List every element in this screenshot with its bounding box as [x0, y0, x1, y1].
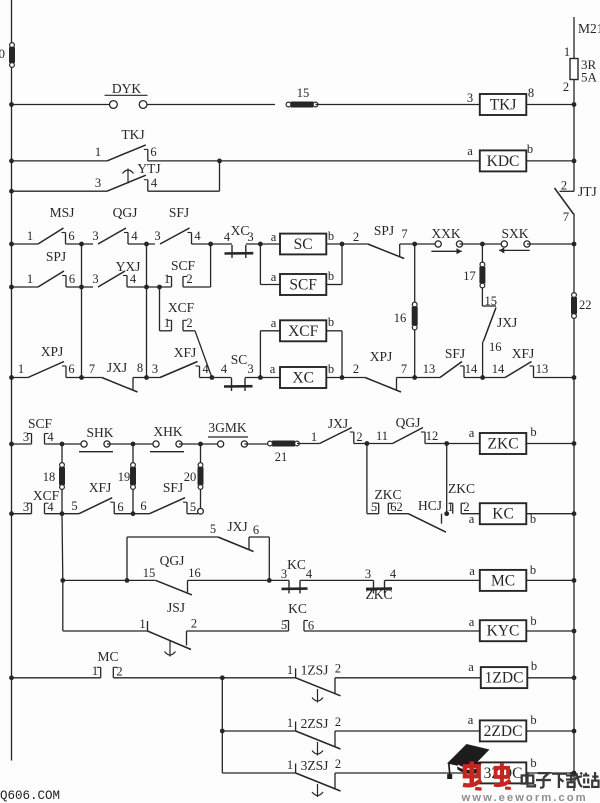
contact JXJ pins 15-16 (vertical): [482, 294, 517, 354]
wire KYC row right: [526, 629, 576, 634]
watermark url www.eeworm.com: [461, 792, 588, 803]
wire row2 left: [9, 159, 107, 164]
contact SPJ pins 1-6: [27, 249, 75, 287]
wire + node row6-A: [66, 375, 102, 380]
watermark text 电子下载站: [522, 772, 599, 788]
contact QGJ pins 11-12: [376, 415, 438, 444]
fuse 21: [268, 441, 300, 465]
contact 2ZSJ pins 1-2 with delay arrow: [287, 715, 341, 756]
contact YTJ pins 3-4 with delay arrow: [95, 161, 161, 191]
wire column SC-b to SCF-b: [326, 244, 342, 285]
site label Q606.COM: [0, 789, 60, 803]
wire + node col16 bottom: [397, 375, 441, 380]
coil SCF pins a-b: [271, 269, 334, 295]
wire row3 to XC contact: [192, 242, 233, 247]
switch XXK: [431, 226, 462, 254]
coil 1ZDC pins a-b: [468, 659, 537, 688]
wire + node col20 top: [179, 442, 221, 447]
wire right bus mid: [573, 80, 575, 192]
wire row1 to coil: [316, 104, 480, 106]
contact ZKC pins 3-4 (NC): [365, 567, 397, 602]
wire 1ZDC row right: [527, 675, 576, 680]
wire row7 left: [9, 442, 31, 447]
contact XPJ pins 2-7: [353, 349, 407, 392]
wire row1 mid: [147, 104, 275, 106]
wire JXJ bypass riser left: [127, 537, 218, 580]
contact HCJ: [388, 498, 446, 532]
wire to 2ZDC coil: [335, 730, 480, 732]
wire to ZSJ column node: [113, 675, 295, 680]
wire MC-contact row left: [9, 675, 101, 680]
wire column SC-a to SCF-a: [260, 244, 280, 285]
wire + node row8 col18: [45, 511, 80, 516]
coil SC pins a-b: [271, 229, 334, 254]
wire ZSJ column: [220, 678, 225, 773]
switch SHK: [79, 425, 114, 452]
wire column row4-to-row3: [210, 244, 212, 287]
contact SCF pins 1-2: [164, 258, 196, 287]
wire KC row right: [526, 511, 576, 516]
wire to 1ZDC coil: [335, 677, 481, 679]
resistor 17 column: [463, 244, 485, 306]
wire + node row3-B: [128, 242, 155, 247]
resistor 18 column: [43, 444, 65, 514]
wire column z56: [367, 444, 379, 514]
wire row3 left: [9, 242, 38, 247]
contact SC pins 4-3 (NC): [221, 352, 254, 391]
node M21: [578, 21, 600, 36]
wire column A rows3-6: [81, 244, 83, 378]
contact ZKC pins 1-2: [447, 481, 475, 514]
wire to MC coil: [385, 579, 480, 581]
wire JSJ row to KC contact: [187, 630, 289, 632]
wire + node row6-B: [133, 375, 160, 380]
contact JXJ pins 5-6 (bypass): [210, 519, 259, 552]
wire 3ZSJ row left: [222, 772, 295, 774]
wire + node row4-A: [66, 285, 93, 290]
wire QGJ row to ZKC contact: [300, 579, 374, 581]
contact MC pins 1-2: [92, 649, 123, 679]
contact SFJ pins 13-14: [423, 346, 478, 378]
wire row6 after XC: [326, 375, 365, 380]
wire column z12: [444, 444, 449, 516]
wire right bus upper: [573, 17, 575, 59]
coil TKJ pins 3-8: [467, 86, 534, 115]
contact ZKC pins 5-6: [371, 487, 403, 514]
contact JXJ pins 1-2: [311, 416, 363, 444]
contact XCF pins 1-2: [164, 300, 195, 331]
wire row2 to junction: [148, 159, 222, 164]
coil KC pins a-b: [469, 503, 536, 526]
wire right bus lower: [573, 214, 575, 792]
wire to KYC coil: [304, 630, 480, 632]
contact YXJ pins 3-4: [92, 259, 140, 287]
switch XHK: [150, 424, 184, 452]
contact SFJ pins 3-4: [154, 205, 201, 244]
coil XC pins a-b: [270, 362, 334, 388]
wire + node row3-A: [66, 242, 94, 247]
resistor 16 column: [394, 244, 418, 378]
contact JXJ pins 7-8: [89, 360, 143, 392]
watermark text 虫虫: [463, 762, 511, 790]
contact KC pins 5-6: [281, 601, 314, 633]
fuse 0 (left bus): [0, 43, 15, 68]
coil 3ZDC pins a-b: [480, 756, 537, 783]
coil KYC pins a-b: [469, 614, 537, 641]
contact JSJ pins 1-2 with delay arrow: [139, 600, 197, 657]
wire + node z56 top: [354, 441, 393, 446]
wire + node col19 top: [107, 442, 156, 447]
wire + node col17 bottom: [464, 375, 505, 380]
contact 3ZSJ pins 1-2 with delay arrow: [287, 757, 341, 797]
contact XFJ pins 14-13: [492, 346, 549, 378]
wire JSJ row left: [63, 630, 148, 632]
wire + node col17 top: [460, 242, 505, 247]
wire row7 to JXJ: [297, 443, 320, 445]
wire + node col16 top: [400, 242, 438, 247]
wire JXJ bypass riser right: [249, 537, 269, 580]
contact QGJ pins 15-16: [143, 553, 201, 595]
wire 2ZSJ row left: [222, 730, 295, 732]
contact SPJ pins 2-7: [353, 223, 408, 259]
wire left bus: [11, 0, 13, 761]
wire QGJ row to KC contact: [188, 578, 290, 583]
wire row6 right: [534, 375, 577, 380]
wire + node row4-B: [127, 285, 172, 290]
wire row6 left: [9, 375, 28, 380]
wire + node row8 col19: [114, 511, 149, 516]
contact XFJ pins 3-4: [152, 345, 210, 378]
wire QGJ row left: [63, 578, 156, 583]
contact QGJ pins 3-4: [92, 205, 138, 244]
wire row1 right: [526, 102, 576, 107]
wire row4 to riser: [183, 286, 211, 288]
wire column XC-b to XCF-b: [326, 331, 342, 378]
contact 1ZSJ pins 1-2 with delay arrow: [287, 662, 341, 703]
contact XC pins 4-3 (NC): [224, 223, 254, 258]
wire XCF branch riser: [160, 287, 172, 331]
contact SFJ pins 6-5: [140, 480, 196, 514]
wire column B rows3-6: [146, 244, 148, 378]
wire row3 right: [527, 242, 576, 247]
switch 3GMK: [208, 420, 248, 447]
contact XCF pins 3-4: [23, 488, 60, 514]
coil ZKC pins a-b: [469, 425, 537, 454]
contact XFJ pins 5-6: [71, 480, 123, 514]
coil XCF pins a-b: [271, 315, 334, 341]
resistor 20 column: [184, 444, 204, 514]
wire row6 to SC contact: [200, 375, 232, 380]
wire row3 to SC coil: [246, 242, 280, 247]
svg-text:Q606.COM: Q606.COM: [0, 789, 60, 803]
pushbutton DYK: [105, 81, 148, 108]
wire to KC coil: [461, 513, 480, 515]
wire row6 to XC coil: [245, 375, 280, 380]
contact KC pins 3-4 (NC): [281, 557, 313, 593]
wire column 18 to QGJ/JSJ rows: [60, 514, 65, 631]
wire column 17 lower: [482, 342, 484, 378]
coil 2ZDC pins a-b: [468, 713, 537, 741]
wire YTJ to junction: [148, 161, 220, 191]
wire row8 to terminal circle: [187, 513, 198, 515]
watermark graduation cap: [447, 744, 490, 779]
fuse 3R 5A: [563, 45, 598, 94]
coil KDC pins a-b: [467, 142, 533, 171]
wire column XC-a to XCF-a: [260, 331, 280, 378]
wire row2 right: [526, 159, 576, 164]
contact MSJ pins 1-6: [27, 205, 75, 244]
wire row1 left: [9, 102, 109, 107]
switch SXK: [499, 226, 530, 253]
fuse 22 (right bus): [571, 293, 592, 319]
contact SCF pins 3-4: [23, 416, 55, 444]
contact JTJ pins 2-7: [555, 179, 597, 225]
wire + node col18 top: [45, 442, 85, 447]
wire row8 left: [9, 511, 31, 516]
wire XCF branch to row6: [183, 331, 212, 378]
resistor 19 column: [118, 444, 136, 514]
coil MC pins a-b: [469, 563, 536, 591]
wire 2ZDC row right: [526, 729, 576, 734]
wire row7 to fuse 21: [244, 443, 270, 445]
contact XPJ pins 1-6: [18, 344, 75, 378]
wire YTJ branch: [9, 189, 107, 194]
contact TKJ pins 1-6: [95, 127, 157, 161]
wire row7 right: [526, 441, 576, 446]
svg-text:www.eeworm.com: www.eeworm.com: [461, 792, 588, 803]
fuse 15: [286, 86, 318, 108]
wire 3ZDC row right: [526, 771, 576, 776]
wire row4 left: [9, 285, 38, 290]
wire row2 to coil: [220, 160, 480, 162]
wire row3 after SC: [326, 242, 368, 247]
wire + node z12 top: [425, 441, 480, 446]
wire to 3ZDC coil: [335, 772, 480, 774]
wire MC row right: [526, 578, 576, 583]
